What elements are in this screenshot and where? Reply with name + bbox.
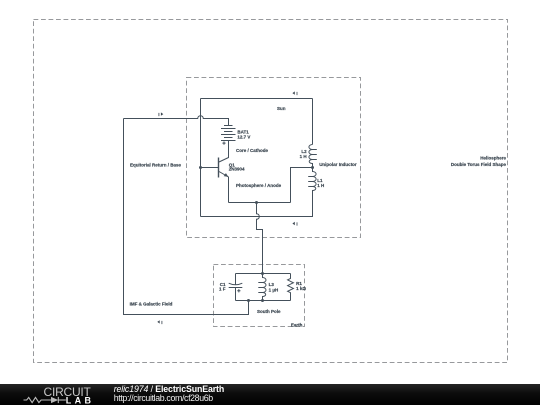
svg-text:L3: L3 [269, 282, 275, 287]
svg-text:I: I [158, 112, 159, 117]
svg-text:Double Torus Field Shape: Double Torus Field Shape [451, 162, 507, 167]
svg-text:South Pole: South Pole [257, 309, 281, 314]
svg-text:1 kΩ: 1 kΩ [296, 286, 306, 291]
svg-text:IMF & Galactic Field: IMF & Galactic Field [130, 302, 173, 307]
svg-text:Earth: Earth [291, 322, 303, 327]
svg-text:BAT1: BAT1 [237, 129, 249, 134]
svg-text:Core / Cathode: Core / Cathode [236, 148, 269, 153]
svg-text:LAB: LAB [66, 395, 92, 405]
svg-text:Sun: Sun [277, 106, 286, 111]
svg-text:12.7 V: 12.7 V [237, 135, 250, 140]
svg-text:Photosphere / Anode: Photosphere / Anode [236, 183, 282, 188]
svg-text:I: I [296, 222, 297, 227]
svg-text:http://circuitlab.com/cf28u6b: http://circuitlab.com/cf28u6b [114, 393, 214, 403]
svg-text:I: I [296, 91, 297, 96]
svg-text:Heliosphere: Heliosphere [480, 155, 506, 160]
svg-text:Equitorial Return / Base: Equitorial Return / Base [130, 162, 182, 167]
svg-text:1 H: 1 H [300, 154, 307, 159]
svg-text:1 µH: 1 µH [269, 288, 279, 293]
svg-text:1 F: 1 F [219, 287, 226, 292]
svg-text:2N3904: 2N3904 [229, 167, 245, 172]
svg-text:Unipolar Inductor: Unipolar Inductor [319, 162, 357, 167]
svg-text:I: I [161, 320, 162, 325]
svg-text:1 H: 1 H [317, 183, 324, 188]
